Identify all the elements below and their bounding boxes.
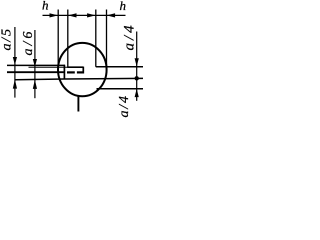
gate electrode horizontal segment S1 [67,66,83,68]
svg-text:a/4: a/4 [117,94,132,117]
wire: vertical connector from L1 down to substrate line [63,65,65,79]
dimension a/5 arrow shaft [14,27,16,98]
gate electrode vertical segment S2 [82,67,84,74]
channel dash segment (right) [77,71,84,73]
dimension a/5 arrowhead up at L3 [13,79,17,88]
svg-text:a/6: a/6 [21,29,36,56]
transistor envelope circle [58,43,107,96]
dimension a/6 arrowhead up at L3 [33,80,37,89]
dimension a/6 arrow shaft [34,30,36,98]
svg-text:a/5: a/5 [0,27,15,50]
wire: source lead (enters envelope top-left) [57,10,59,68]
dimension arrowhead at gate lead [68,13,77,17]
wire: bottom lead from envelope [77,96,79,112]
wire: gate line L1 (horizontal, from left) [7,64,65,66]
svg-text:a/4: a/4 [122,22,138,50]
wire: substrate lead (tangent to envelope) [106,10,108,71]
channel dash segment (middle) [67,71,75,73]
wire: drain lead (to right electrode line) [95,10,97,67]
dimension chain junction dot at L3 [135,76,139,80]
svg-text:h: h [120,0,127,13]
dimension arrowhead at drain lead [87,13,96,17]
dimension a/6 arrowhead down at gate electrode [33,59,37,67]
wire: drain electrode line R1 (right) [96,66,143,68]
dimension a/4 arrowhead up at R3 [135,89,139,97]
wire: lower right line R3 [97,88,144,90]
dimension a/5 arrowhead down at L1 [13,57,17,65]
wire: gate lead (to gate electrode step) [67,10,69,68]
dimension arrowhead at source lead [50,13,59,17]
wire: substrate line L3 (crosses envelope to right edge) [16,78,144,79]
extension line of gate electrode (for a/6 dimension) [29,66,68,68]
wire: channel line L2 (solid left part) [7,71,64,73]
dimension a/4 chain shaft [136,32,138,101]
dimension a/4 arrowhead down at R1 [135,58,139,66]
dimension line (top, lead spacing h) [43,14,126,16]
dimension arrowhead at substrate lead [107,13,116,17]
svg-text:h: h [42,0,49,13]
